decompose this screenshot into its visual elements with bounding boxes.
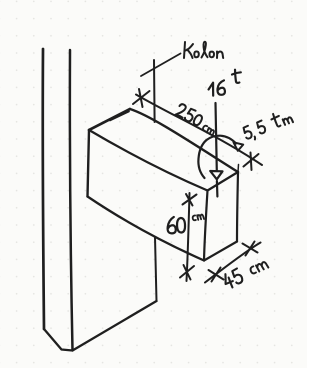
label 45 cm xyxy=(222,256,270,290)
force arrow line 16t xyxy=(216,103,218,197)
corbel back-right vertical edge C-G xyxy=(237,172,238,242)
dimension line 250cm xyxy=(136,95,262,166)
force arrowhead xyxy=(210,171,222,179)
X mark right of 45cm dimension xyxy=(243,242,258,256)
label t (of 16t) xyxy=(232,69,242,83)
column front-right edge lower segment xyxy=(155,237,157,301)
X mark right of 250cm dimension xyxy=(244,153,259,171)
column back-left edge xyxy=(43,49,44,329)
label 5,5 tm xyxy=(242,108,294,142)
column front-right edge upper segment xyxy=(153,60,156,122)
corbel front-right vertical edge D-F xyxy=(204,191,208,261)
label 250 cm xyxy=(174,103,219,135)
moment arrowhead xyxy=(234,142,244,151)
X mark left of 250cm dimension xyxy=(133,89,150,107)
corbel bottom-front edge E-F xyxy=(88,197,205,261)
corbel front-left vertical edge A-E xyxy=(88,130,90,197)
label 60 xyxy=(167,216,186,233)
corbel top-front edge A-D xyxy=(89,130,208,191)
X mark bottom of 60cm dimension xyxy=(180,265,194,280)
X mark left of 45cm dimension xyxy=(209,268,224,282)
corbel end-face bottom edge G-F xyxy=(204,242,237,261)
column front-left edge xyxy=(70,50,73,350)
dimension line 45cm xyxy=(205,243,261,283)
column bottom left break edge xyxy=(44,329,73,351)
leader line to Kolon label xyxy=(141,54,181,77)
corbel top-left edge A-B xyxy=(89,109,130,130)
label 16 xyxy=(208,80,225,96)
corbel top-left edge double stroke xyxy=(110,112,129,121)
dimension line 60cm vertical xyxy=(187,193,190,281)
corbel top-back edge B-C xyxy=(130,109,238,172)
column bottom front break edge xyxy=(73,301,157,351)
label cm (of 60cm) xyxy=(192,214,204,222)
corbel end-face top edge C-D xyxy=(208,172,239,191)
X mark top of 60cm dimension xyxy=(183,194,197,206)
moment arc 5,5tm xyxy=(198,136,236,178)
label Kolon xyxy=(184,42,223,58)
overshoot tick above corner C xyxy=(237,165,240,173)
